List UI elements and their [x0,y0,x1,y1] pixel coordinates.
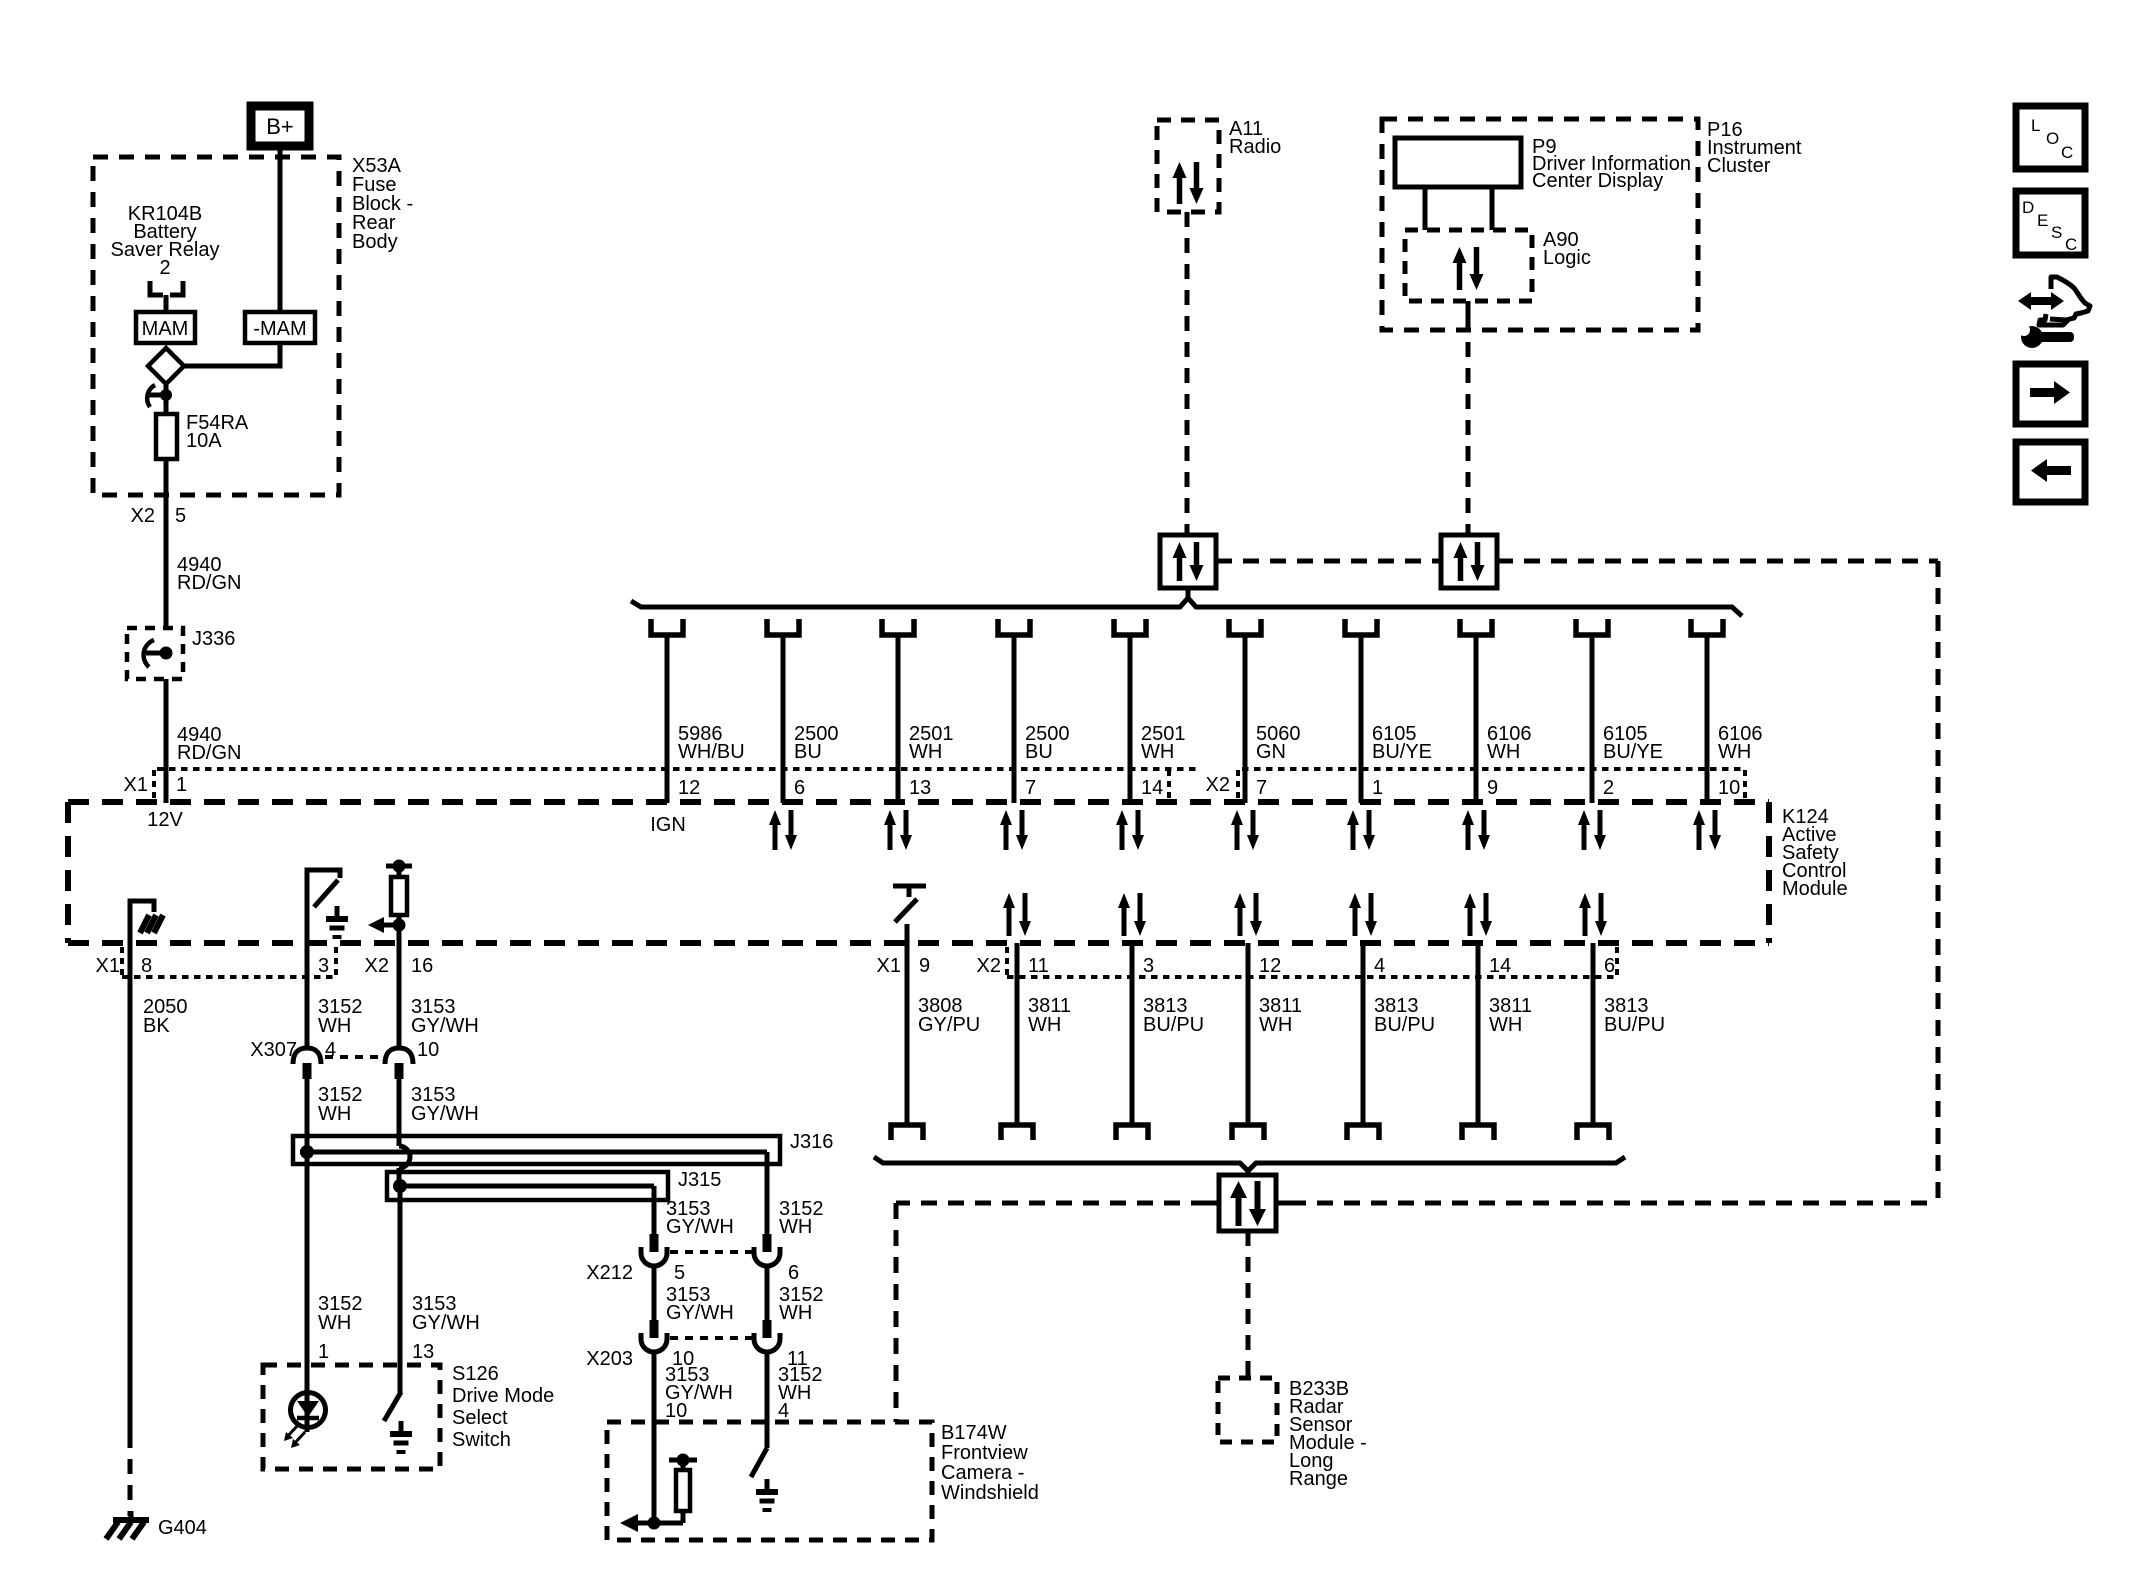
svg-text:10: 10 [665,1400,687,1422]
fuse F54RA 10A [156,395,177,496]
svg-text:X203: X203 [586,1348,633,1370]
A90 comm arrows [1457,261,1463,290]
wire 3152 WH from pin 3 [307,943,363,1049]
connector X2 top row face line [1242,767,1745,771]
component P16 Instrument Cluster dashed box [1382,119,1698,330]
bidirectional arrows pin 13 [884,810,912,850]
bus wire 2500 BU pin 7 [998,619,1070,803]
label F54RA 10A [186,412,249,452]
wire 3153 GY/WH J315 to S126 pin 13 [399,1168,480,1392]
top row X2 separator stubs [1169,770,1745,800]
svg-text:X2: X2 [365,955,389,977]
ground G404 [106,1511,207,1539]
wire 3152 WH J316 to S126 pin 1 [307,1152,363,1392]
svg-text:WH: WH [318,1103,351,1125]
A11 comm arrows [1177,176,1183,204]
svg-text:BU/YE: BU/YE [1372,741,1432,763]
label B233B Radar Sensor Module - Long Range [1289,1378,1367,1490]
label A11 Radio [1229,118,1281,158]
svg-text:11: 11 [1028,955,1049,977]
svg-text:GY/WH: GY/WH [666,1302,734,1324]
svg-text:S: S [2051,223,2062,242]
comm bus dashed segment left [1216,559,1441,564]
bidirectional arrows pin 10 [1693,810,1721,850]
svg-text:B174W: B174W [941,1422,1007,1444]
svg-text:WH: WH [318,1015,351,1037]
svg-text:2: 2 [159,257,170,279]
svg-text:WH: WH [1028,1014,1061,1036]
internal arrow at pin 16 [368,917,406,933]
bidirectional arrows pin 6 [769,810,797,850]
relay switch contact and junction [147,384,172,414]
svg-text:5: 5 [175,505,186,527]
label P16 Instrument Cluster [1707,119,1802,177]
comm dashed line radar to right riser [1276,1201,1938,1206]
svg-text:GN: GN [1256,741,1286,763]
bidirectional arrows pin 2 [1578,810,1606,850]
bidirectional arrows pin 4 [1349,893,1377,936]
svg-text:6: 6 [788,1262,799,1284]
relay coil diamond [148,348,184,384]
in-line connector X212 pins 5 and 6 [586,1234,799,1284]
svg-text:13: 13 [909,777,931,799]
label K124 Active Safety Control Module [1782,806,1848,900]
wire 3152 WH X203 to camera pin 4 [767,1354,823,1422]
wire 3813 to bottom connector pin 3 [1116,943,1204,1140]
connector X2 pin 16 label [365,955,434,977]
relay KR104B label [111,203,220,279]
svg-text:BK: BK [143,1015,170,1037]
svg-text:BU/PU: BU/PU [1374,1014,1435,1036]
bidirectional arrows pin 7 [1000,810,1028,850]
internal ground contact at pin 3 [335,906,340,918]
svg-text:Radio: Radio [1229,136,1281,158]
svg-text:L: L [2031,116,2040,135]
radar B233B dashed box [1218,1378,1277,1442]
ground contact in S126 [399,1421,404,1433]
svg-text:WH: WH [779,1216,812,1238]
svg-text:X2: X2 [977,955,1001,977]
bidirectional arrows pin 14 [1464,893,1492,936]
svg-text:C: C [2061,143,2073,162]
wire 3811 to bottom connector pin 14 [1462,943,1532,1140]
svg-text:Logic: Logic [1543,247,1591,269]
component A11 Radio dashed box [1157,120,1219,212]
wire A11 to comm box dashed [1185,212,1190,535]
icon back arrow button [2016,442,2085,502]
svg-text:X1: X1 [124,774,148,796]
svg-text:9: 9 [919,955,930,977]
bidirectional arrows pin 1 [1347,810,1375,850]
svg-text:14: 14 [1489,955,1511,977]
svg-text:BU/YE: BU/YE [1603,741,1663,763]
display P9 box [1395,138,1521,187]
bidirectional arrows pin 3 [1118,893,1146,936]
bidirectional arrows pin 11 [1003,893,1031,936]
internal ground at pin 8 [130,901,163,943]
icon next arrow button [2016,364,2085,424]
connector X1 pin 9 label [877,955,931,977]
connector X2 pin 5 of fuse block [131,505,187,527]
svg-text:GY/WH: GY/WH [666,1216,734,1238]
svg-text:1: 1 [1372,777,1383,799]
connector X1 top row face line [157,767,1196,771]
svg-text:O: O [2046,129,2059,148]
wire 3153 GY/WH X203 to camera pin 10 [654,1354,733,1422]
svg-text:Windshield: Windshield [941,1482,1039,1504]
wire 2050 BK [130,943,188,1516]
svg-text:WH: WH [1259,1014,1292,1036]
svg-text:Camera -: Camera - [941,1462,1024,1484]
svg-text:Center Display: Center Display [1532,170,1663,192]
svg-text:Module: Module [1782,878,1848,900]
bidirectional arrows pin 12 [1234,893,1262,936]
svg-text:3: 3 [1143,955,1154,977]
wire 3153 GY/WH from pin 16 [399,943,479,1049]
wire 4940 RD/GN lower segment [166,679,241,803]
svg-text:Select: Select [452,1407,508,1429]
svg-text:J316: J316 [790,1131,833,1153]
svg-text:Drive Mode: Drive Mode [452,1385,554,1407]
svg-text:Cluster: Cluster [1707,155,1771,177]
wire 3152 WH J316 to X212 [767,1152,824,1238]
wire diamond to -MAM [184,343,280,366]
svg-text:1: 1 [318,1341,329,1363]
svg-text:X2: X2 [131,505,155,527]
LED indicator in S126 [284,1392,326,1448]
svg-text:WH: WH [1489,1014,1522,1036]
label S126 Drive Mode Select Switch [452,1363,554,1451]
connector X2 bottom row labels [977,947,1617,977]
in-line connector J336 [127,628,235,679]
svg-text:Range: Range [1289,1468,1348,1490]
svg-text:9: 9 [1487,777,1498,799]
wire 3811 to bottom connector pin 12 [1232,943,1302,1140]
icon DESC button [2016,191,2085,255]
comm node box cluster side [1441,535,1497,588]
comm dashed line to camera [896,1203,1219,1422]
svg-text:C: C [2065,235,2077,254]
svg-text:1: 1 [176,774,187,796]
svg-text:7: 7 [1256,777,1267,799]
svg-text:5: 5 [674,1262,685,1284]
svg-text:S126: S126 [452,1363,499,1385]
label X53A Fuse Block - Rear Body [352,155,413,253]
wire B+ to -MAM [278,146,283,313]
svg-text:Body: Body [352,231,398,253]
svg-text:13: 13 [412,1341,434,1363]
bus wire 5060 GN pin 7 [1229,619,1301,803]
svg-text:BU/PU: BU/PU [1143,1014,1204,1036]
wire 3153 GY/WH X212 to X203 [654,1268,734,1324]
serial data bus brace to K124 [631,598,1742,616]
svg-text:Switch: Switch [452,1429,511,1451]
svg-text:B+: B+ [266,114,294,139]
wire 3813 to bottom connector pin 4 [1347,943,1435,1140]
svg-text:X212: X212 [586,1262,633,1284]
bus wire 6106 WH pin 9 [1460,619,1532,803]
internal switch at pin 3 [307,870,340,943]
wire 3152 WH X307 to J316 [307,1079,363,1152]
wire 3153 GY/WH J315 to X212 [654,1186,734,1238]
in-line connector X307 pins 4 and 10 [250,1039,439,1079]
svg-text:D: D [2022,198,2034,217]
svg-text:WH: WH [1487,741,1520,763]
bus wire 5986 WH/BU pin 12 [651,619,745,803]
svg-text:16: 16 [411,955,433,977]
svg-text:2: 2 [1603,777,1614,799]
comm node box A11 side [1160,535,1216,588]
wires P9 to A90 [1425,187,1492,230]
stub comm box to brace [1186,588,1191,600]
bus wire 2501 WH pin 14 [1114,619,1186,803]
wire 3153 GY/WH X307 to J316 [399,1079,479,1146]
relay KR104B contact [150,281,183,313]
bus wire 6106 WH pin 10 [1691,619,1763,803]
svg-text:BU: BU [794,741,822,763]
switch blade in S126 [384,1392,401,1421]
svg-text:WH: WH [1718,741,1751,763]
label B174W Frontview Camera - Windshield [941,1422,1039,1504]
bidirectional arrows pin 9 [1462,810,1490,850]
camera internal switch [751,1422,767,1477]
comm bus right vertical drop [1936,561,1941,1203]
label A90 Logic [1543,229,1591,269]
svg-text:7: 7 [1025,777,1036,799]
svg-text:RD/GN: RD/GN [177,572,241,594]
svg-text:4: 4 [1374,955,1385,977]
comm bus dashed segment right [1497,559,1938,564]
svg-text:8: 8 [141,955,152,977]
bus wire 6105 BU/YE pin 1 [1345,619,1432,803]
svg-text:BU: BU [1025,741,1053,763]
svg-text:14: 14 [1141,777,1163,799]
svg-text:MAM: MAM [142,318,189,340]
wire 3811 to bottom connector pin 11 [1001,943,1071,1140]
camera internal wire and arrow [620,1422,661,1532]
in-line connector X203 pins 10 and 11 [586,1320,807,1370]
svg-text:10: 10 [1718,777,1740,799]
wire 4940 RD/GN upper segment [166,495,241,628]
icon harness view with wrench [2018,277,2090,348]
relay terminal -MAM [245,312,315,343]
svg-text:X2: X2 [1206,774,1230,796]
svg-text:10: 10 [417,1039,439,1061]
wire 3152 WH X212 to X203 [767,1268,824,1324]
svg-text:WH: WH [1141,741,1174,763]
battery positive terminal B+ [251,106,309,146]
label P9 Driver Information Center Display [1532,136,1691,192]
svg-text:WH: WH [318,1312,351,1334]
splice pack J315 [387,1169,721,1200]
internal switch at pin 9 [893,886,926,943]
serial data brace below connectors [874,1157,1625,1171]
svg-text:12: 12 [1259,955,1281,977]
icon LOC button [2016,106,2085,169]
wire 3813 to bottom connector pin 6 [1577,943,1665,1140]
fuse block X53A dashed box [93,157,339,495]
svg-text:-MAM: -MAM [253,318,306,340]
svg-text:6: 6 [1604,955,1615,977]
svg-text:X307: X307 [250,1039,297,1061]
svg-text:4: 4 [778,1400,789,1422]
wire A90 to comm box dashed [1466,301,1471,535]
bidirectional arrows pin 6 [1579,893,1607,936]
svg-text:3: 3 [318,955,329,977]
module K124 Active Safety Control Module outline [68,802,1769,943]
component A90 Logic dashed box [1405,230,1532,301]
svg-text:6: 6 [794,777,805,799]
svg-text:GY/WH: GY/WH [412,1312,480,1334]
camera internal ground [765,1479,770,1491]
svg-text:12: 12 [678,777,700,799]
svg-text:WH: WH [779,1302,812,1324]
switch S126 Drive Mode Select Switch dashed box [263,1365,440,1469]
camera B174W dashed box [607,1422,932,1540]
splice pack J316 [293,1131,833,1164]
svg-text:Frontview: Frontview [941,1442,1028,1464]
svg-text:12V: 12V [147,809,183,831]
svg-text:J315: J315 [678,1169,721,1191]
svg-text:WH/BU: WH/BU [678,741,745,763]
svg-text:IGN: IGN [650,814,686,836]
bus wire 2501 WH pin 13 [882,619,954,803]
svg-text:J336: J336 [192,628,235,650]
connector X1 bottom-left pins 8 and 3 [96,947,336,977]
internal resistor at pin 16 [386,860,412,944]
comm dashed drop to radar module [1246,1231,1251,1378]
svg-text:GY/PU: GY/PU [918,1014,980,1036]
wire 3808 GY/PU pin 9 [891,943,980,1140]
X1 pin 1 label [124,774,188,796]
svg-text:BU/PU: BU/PU [1604,1014,1665,1036]
svg-text:GY/WH: GY/WH [411,1015,479,1037]
svg-text:E: E [2037,211,2048,230]
bidirectional arrows pin 14 [1116,810,1144,850]
svg-text:10A: 10A [186,430,222,452]
svg-text:WH: WH [909,741,942,763]
bus wire 2500 BU pin 6 [767,619,839,803]
svg-text:X1: X1 [877,955,901,977]
svg-text:X1: X1 [96,955,120,977]
comm node box to radar [1219,1171,1276,1231]
svg-text:G404: G404 [158,1517,207,1539]
svg-text:RD/GN: RD/GN [177,742,241,764]
X1 top separator stub [152,770,156,800]
bidirectional arrows pin 7 [1231,810,1259,850]
camera internal resistor [654,1454,697,1524]
bus wire 6105 BU/YE pin 2 [1576,619,1663,803]
relay coil terminal MAM [136,312,195,343]
wire 3153 hop over J316 bus [399,1146,410,1168]
svg-text:GY/WH: GY/WH [411,1103,479,1125]
